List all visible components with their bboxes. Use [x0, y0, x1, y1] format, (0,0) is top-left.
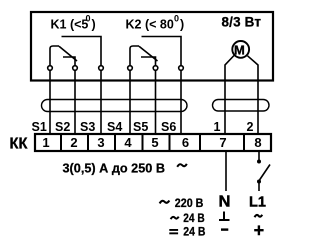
svg-text:L1: L1	[249, 195, 266, 211]
svg-text:K1 (<5: K1 (<5	[51, 18, 89, 32]
svg-text:M: M	[234, 42, 245, 57]
svg-text:7: 7	[219, 135, 226, 150]
svg-text:8/3 Вт: 8/3 Вт	[222, 15, 262, 30]
svg-text:220 В: 220 В	[175, 196, 204, 210]
svg-text:5: 5	[151, 135, 158, 150]
svg-text:S5: S5	[133, 120, 148, 134]
svg-text:1: 1	[42, 135, 49, 150]
svg-text:2: 2	[247, 120, 254, 134]
svg-text:S2: S2	[55, 120, 70, 134]
svg-text:0: 0	[86, 14, 91, 24]
svg-text:3: 3	[97, 135, 104, 150]
svg-text:S3: S3	[80, 120, 95, 134]
svg-text:24 В: 24 В	[183, 211, 205, 225]
svg-text:K2 (< 80: K2 (< 80	[126, 18, 174, 32]
svg-text:N: N	[219, 194, 231, 211]
svg-text:S1: S1	[32, 120, 47, 134]
svg-text:): )	[92, 18, 96, 32]
svg-text:): )	[180, 18, 184, 32]
svg-text:1: 1	[214, 120, 221, 134]
svg-text:КК: КК	[10, 136, 29, 153]
svg-text:8: 8	[254, 135, 261, 150]
svg-text:3(0,5) А до 250 В: 3(0,5) А до 250 В	[63, 161, 166, 175]
svg-text:24 В: 24 В	[183, 224, 205, 238]
svg-text:0: 0	[174, 14, 179, 24]
svg-text:6: 6	[182, 135, 189, 150]
svg-text:S6: S6	[161, 120, 176, 134]
svg-text:2: 2	[70, 135, 77, 150]
svg-text:S4: S4	[107, 120, 122, 134]
svg-text:4: 4	[124, 135, 132, 150]
